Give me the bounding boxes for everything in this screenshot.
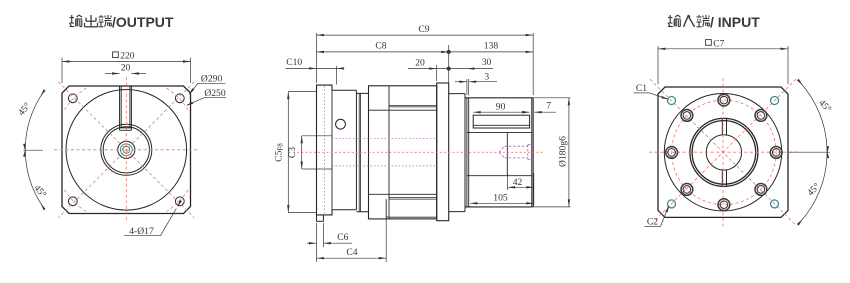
dim C6 ext right xyxy=(322,223,324,247)
right view corner tapped hole 3 xyxy=(668,200,676,208)
right view hub ring outer xyxy=(690,118,758,186)
side section30 right vertical xyxy=(464,94,466,212)
dim 3 arrow left xyxy=(459,81,467,83)
label C2 leader xyxy=(661,207,669,227)
right 45deg arc xyxy=(800,83,827,222)
svg-text:7: 7 xyxy=(546,101,551,112)
right view clamp slot bottom left xyxy=(721,170,723,186)
right view bolt hole 6 outer xyxy=(681,110,693,122)
svg-text:30: 30 xyxy=(482,57,492,68)
left 45deg arrow 2 xyxy=(23,149,25,157)
svg-text:4-Ø17: 4-Ø17 xyxy=(129,226,154,237)
right view bolt hole 4 outer xyxy=(681,184,693,196)
dim C10 ext right xyxy=(336,66,338,85)
dim 3 line left xyxy=(455,81,467,83)
hidden output bore top xyxy=(332,138,437,140)
right view clamp slot top left xyxy=(721,118,723,134)
side mid inner line bottom c xyxy=(389,216,437,218)
side pilot end bottom edge xyxy=(532,206,533,208)
left view bolt hole 2 (4-Ø17) xyxy=(175,94,184,103)
dim 20 arrow right xyxy=(131,72,139,74)
side mid bore line bottom xyxy=(369,193,437,195)
side C3 step line bottom xyxy=(302,168,332,170)
side flange right edge xyxy=(355,90,357,209)
hidden input counterbore bottom xyxy=(528,159,533,161)
hidden input counterbore top xyxy=(528,144,533,146)
dim C3 arrow bottom xyxy=(301,162,303,170)
side pilot cylinder top xyxy=(465,97,532,99)
dim C8 arrow right xyxy=(441,51,449,53)
svg-text:3: 3 xyxy=(484,71,489,82)
right view vertical centerline xyxy=(722,78,724,227)
side input flange plate xyxy=(437,83,449,221)
svg-text:20: 20 xyxy=(415,57,425,68)
dim 3 ext 2 xyxy=(468,79,470,96)
side mid inner line top a xyxy=(389,104,437,106)
dim 20 line right xyxy=(131,73,146,75)
side keyway box xyxy=(473,115,529,128)
dim C4 line xyxy=(317,257,387,259)
dim 105 line xyxy=(470,202,534,204)
dim C10 arrow left xyxy=(309,67,317,69)
side pilot end face line 1 xyxy=(531,98,533,207)
dim C9 arrow right xyxy=(526,34,534,36)
right view diagonal NW-SE xyxy=(650,79,796,225)
title output CJK 输 xyxy=(70,17,75,19)
label Ø290 arrow xyxy=(189,88,195,95)
dim 220 square symbol xyxy=(113,52,119,58)
dim 20-30 line xyxy=(408,68,493,70)
dim C7 ext left xyxy=(657,46,659,84)
side flange plug circle xyxy=(336,119,346,129)
dim 138 arrow right xyxy=(526,51,534,53)
title output CJK 端 xyxy=(100,15,102,17)
left view bolt hole 4 (4-Ø17) xyxy=(175,197,184,206)
side flange block outline xyxy=(317,85,333,215)
left view tapped hole teal xyxy=(120,144,132,156)
side flange face-cylinder boundary xyxy=(331,85,333,215)
dim C5 arrow bottom xyxy=(287,205,289,213)
right 45deg arrow 2 xyxy=(827,151,829,159)
side bore line top xyxy=(467,132,532,134)
side mid step line xyxy=(386,216,389,218)
svg-text:C4: C4 xyxy=(346,247,357,258)
svg-text:/OUTPUT: /OUTPUT xyxy=(112,14,174,30)
left view diagonal centerline NE-SW xyxy=(58,82,194,218)
label C1 underline xyxy=(634,92,650,94)
dim C6 arrow right xyxy=(323,242,331,244)
right view hub ring inner xyxy=(692,121,756,185)
svg-text:90: 90 xyxy=(496,102,506,113)
left 45deg arc xyxy=(25,93,42,206)
dim 220 ext line right xyxy=(190,58,192,84)
left view bolt circle arc Ø250 xyxy=(65,88,87,110)
dim C5 arrow top xyxy=(287,92,289,100)
right view flange circle xyxy=(664,94,781,211)
dim C9 arrow left xyxy=(317,34,325,36)
dim chain dot xyxy=(447,67,451,71)
svg-text:20: 20 xyxy=(121,62,131,73)
side section30 top line xyxy=(449,93,465,95)
right view clamp slot top right xyxy=(726,118,728,134)
dim C7 line xyxy=(658,48,788,50)
side axis centerline xyxy=(297,151,545,153)
dim C8 line xyxy=(317,51,449,53)
dim 42 line xyxy=(508,186,534,188)
dim C3 arrow top xyxy=(301,136,303,144)
dim C4 ext left xyxy=(316,247,318,262)
dim 20 line left xyxy=(105,73,120,75)
right 45deg arrow 1 xyxy=(797,79,803,86)
svg-text:C7: C7 xyxy=(713,38,724,49)
dim 20 arrow left xyxy=(112,72,120,74)
right view clamp slot bottom right xyxy=(726,170,728,186)
svg-text:C10: C10 xyxy=(286,57,302,68)
label C1 leader xyxy=(650,93,668,99)
right view horizontal centerline xyxy=(649,151,798,153)
dim 105 arrow left xyxy=(470,202,478,204)
side pilot end face line 2 xyxy=(532,98,534,207)
left view keyway inner right line xyxy=(129,86,131,128)
dim C7 square symbol xyxy=(706,40,712,46)
side bore line bottom xyxy=(467,175,532,177)
right view bolt hole 7 outer xyxy=(718,94,730,106)
dim C5 line xyxy=(287,92,289,213)
dim 42 ext right xyxy=(533,173,535,190)
right view bolt hole 5 outer xyxy=(666,147,678,159)
left 45deg arrow 1 xyxy=(41,203,46,210)
dim C5 ext top xyxy=(288,91,316,93)
svg-text:Ø250: Ø250 xyxy=(204,88,226,99)
dim 105 ext left xyxy=(469,206,471,208)
svg-text:42: 42 xyxy=(513,177,523,188)
left view bolt hole 1 (4-Ø17) xyxy=(68,94,77,103)
label Ø250 leader xyxy=(187,98,204,105)
left view keyway inner left line xyxy=(120,86,122,128)
hidden input bore top xyxy=(505,145,528,147)
side mid inner line bottom a xyxy=(389,197,437,199)
dim 138 dot xyxy=(447,50,451,54)
dim 220 arrow right xyxy=(183,60,191,62)
side mid housing block xyxy=(369,86,437,219)
title output CJK 出 xyxy=(90,15,92,27)
dim C7 arrow right xyxy=(781,48,789,50)
dim C3 line xyxy=(301,136,303,169)
hidden input bore left vertical xyxy=(507,146,509,158)
hidden input bore chamfer top xyxy=(499,146,504,152)
right view bolt hole 2 outer xyxy=(755,184,767,196)
svg-text:C2: C2 xyxy=(647,217,658,228)
svg-text:105: 105 xyxy=(493,193,508,204)
dim 20 ext line xyxy=(436,65,438,81)
side keyway inner line xyxy=(473,124,529,126)
side section30 bottom line xyxy=(449,211,465,213)
title input CJK 输 xyxy=(668,17,673,19)
right view bore circle xyxy=(706,135,741,170)
side mid inner line top b xyxy=(389,106,437,108)
left view hub ring outer xyxy=(101,124,152,175)
right 45deg arrow 4 xyxy=(797,219,803,226)
dim 42 arrow right xyxy=(526,186,534,188)
left 45deg arrow 3 xyxy=(23,144,25,152)
dim 90 arrow right xyxy=(522,111,530,113)
title input CJK 端 xyxy=(698,15,700,17)
svg-text:C8: C8 xyxy=(375,41,386,52)
right view square flange body xyxy=(658,87,788,217)
side flange bottom step line xyxy=(332,209,356,211)
svg-text:C1: C1 xyxy=(636,83,647,94)
svg-text:C6: C6 xyxy=(337,232,348,243)
right view bolt hole 3 outer xyxy=(718,199,730,211)
left view bolt circle arc Ø250 xyxy=(166,88,188,110)
left view bolt circle arc Ø250 xyxy=(65,190,87,212)
dim C4 arrow right xyxy=(379,257,387,259)
left view keyway bottom line 1 xyxy=(120,127,132,129)
side ring3 vertical 2 xyxy=(468,98,470,207)
left view horizontal centerline xyxy=(54,149,198,151)
side mid bore line top xyxy=(369,109,437,111)
dim 42 ext left xyxy=(507,174,509,190)
left view keyway outer left line xyxy=(119,86,121,130)
dim C6 line right xyxy=(323,242,352,244)
dim C10 arrow right xyxy=(337,67,345,69)
right 45deg arrow 3 xyxy=(827,146,829,154)
side flange top step line xyxy=(332,89,356,91)
svg-text:C9: C9 xyxy=(418,24,429,35)
hidden input bore chamfer bottom xyxy=(499,152,504,158)
right view corner tapped hole 2 xyxy=(771,97,779,105)
label Ø250 arrow xyxy=(186,102,193,106)
dim 7 line right xyxy=(534,111,556,113)
dim C9 ext right xyxy=(532,33,534,95)
label Ø250 underline xyxy=(204,97,226,99)
side C3 step line top xyxy=(302,135,332,137)
dim 42 arrow left xyxy=(508,186,515,188)
label C2 underline xyxy=(645,225,661,227)
dim C6 ext left xyxy=(316,223,318,247)
left 45deg arrow 4 xyxy=(41,89,46,96)
left view vertical centerline xyxy=(125,77,127,222)
left view hub ring inner xyxy=(103,127,149,173)
svg-text:/ INPUT: / INPUT xyxy=(710,14,760,30)
side pilot cylinder bottom xyxy=(465,206,532,208)
dim 220 arrow left xyxy=(62,60,70,62)
label 4-Ø17 leader xyxy=(160,209,176,236)
label C2 arrow xyxy=(665,205,669,212)
left view bolt circle arc Ø250 xyxy=(166,190,188,212)
svg-text:Ø290: Ø290 xyxy=(201,74,223,85)
dim ext vertical 448.7 xyxy=(448,45,450,83)
label Ø290 leader xyxy=(190,83,198,93)
dim 220 line xyxy=(62,61,191,63)
left view boss circle C5 xyxy=(66,90,187,211)
label C1 arrow xyxy=(661,96,669,100)
dim 90 arrow left xyxy=(473,111,481,113)
dim C10 line xyxy=(286,67,344,69)
dim 30 arrow xyxy=(467,67,475,69)
label 4-Ø17 underline xyxy=(124,235,160,237)
dim C5 ext bottom xyxy=(288,212,316,214)
dim 220 ext line left xyxy=(61,58,63,84)
dim C8 arrow left xyxy=(317,51,325,53)
dim 7 arrow left xyxy=(522,111,530,113)
left view diagonal centerline NW-SE xyxy=(58,82,194,218)
right view corner tapped hole 4 xyxy=(771,200,779,208)
dim 3 ext 1 xyxy=(466,79,468,95)
dim C9 line xyxy=(317,34,534,36)
right view bolt hole 1 outer xyxy=(770,147,782,159)
hidden output bore bottom xyxy=(332,165,437,167)
left view center hole xyxy=(118,141,135,158)
left view bolt hole 3 (4-Ø17) xyxy=(68,197,77,206)
dim 7 arrow right xyxy=(534,111,542,113)
right 45deg stub xyxy=(789,151,830,153)
dim C7 ext right xyxy=(787,46,789,84)
dim C9 ext left xyxy=(316,33,318,83)
right view bolt hole 8 outer xyxy=(755,110,767,122)
side ring B inner line 1 xyxy=(358,93,360,211)
side flange hidden dotted vertical xyxy=(324,86,326,214)
dim Ø180g6 ext top xyxy=(533,97,570,99)
side mid inner line bottom b xyxy=(389,198,437,200)
dim C6 arrow left xyxy=(309,242,317,244)
left view center pin circle xyxy=(123,146,130,153)
dim Ø180g6 arrow top xyxy=(568,98,570,106)
side pilot end top edge xyxy=(532,97,533,99)
svg-text:220: 220 xyxy=(120,51,135,62)
side flange bottom tab xyxy=(317,215,324,221)
dim 105 ext right xyxy=(533,190,535,206)
dim 138 line xyxy=(449,51,534,53)
side ring3 vertical 1 xyxy=(466,98,468,207)
right view corner tapped hole 1 xyxy=(668,97,676,105)
right view bolt circle red xyxy=(672,100,777,205)
side ring B block xyxy=(356,93,368,211)
hidden input bore bottom xyxy=(505,157,528,159)
svg-text:C3: C3 xyxy=(287,147,298,158)
left view keyway bottom line 2 xyxy=(120,129,132,131)
hidden input bore step vertical xyxy=(527,145,529,160)
dim 105 arrow right xyxy=(526,202,534,204)
dim C7 arrow left xyxy=(658,48,666,50)
dim 3 arrow right xyxy=(469,81,477,83)
side mid division line 2 xyxy=(388,86,390,219)
title input CJK 入 xyxy=(684,15,689,27)
label 4-Ø17 arrow xyxy=(177,200,182,207)
dim C6 line left xyxy=(307,242,317,244)
dim C4 ext right xyxy=(385,220,387,263)
dim 90 line xyxy=(473,111,529,113)
svg-text:Ø180g6: Ø180g6 xyxy=(557,136,568,167)
dim Ø180g6 line xyxy=(568,98,570,207)
label Ø290 underline xyxy=(198,82,225,84)
svg-text:138: 138 xyxy=(484,41,499,52)
dim 3 line right xyxy=(469,81,497,83)
dim 20 plate arrow xyxy=(429,67,437,69)
dim Ø180g6 arrow bottom xyxy=(568,199,570,207)
left 45deg stub line xyxy=(24,149,44,151)
right view diagonal NE-SW xyxy=(650,79,796,225)
dim Ø180g6 ext bottom xyxy=(533,206,570,208)
left view square flange body xyxy=(62,86,191,214)
side mid division line 1 xyxy=(385,199,387,220)
side ring B inner line 2 xyxy=(359,93,361,211)
dim C4 arrow left xyxy=(317,257,325,259)
left view keyway outer right line xyxy=(130,86,132,130)
side bore step vertical xyxy=(506,133,508,176)
